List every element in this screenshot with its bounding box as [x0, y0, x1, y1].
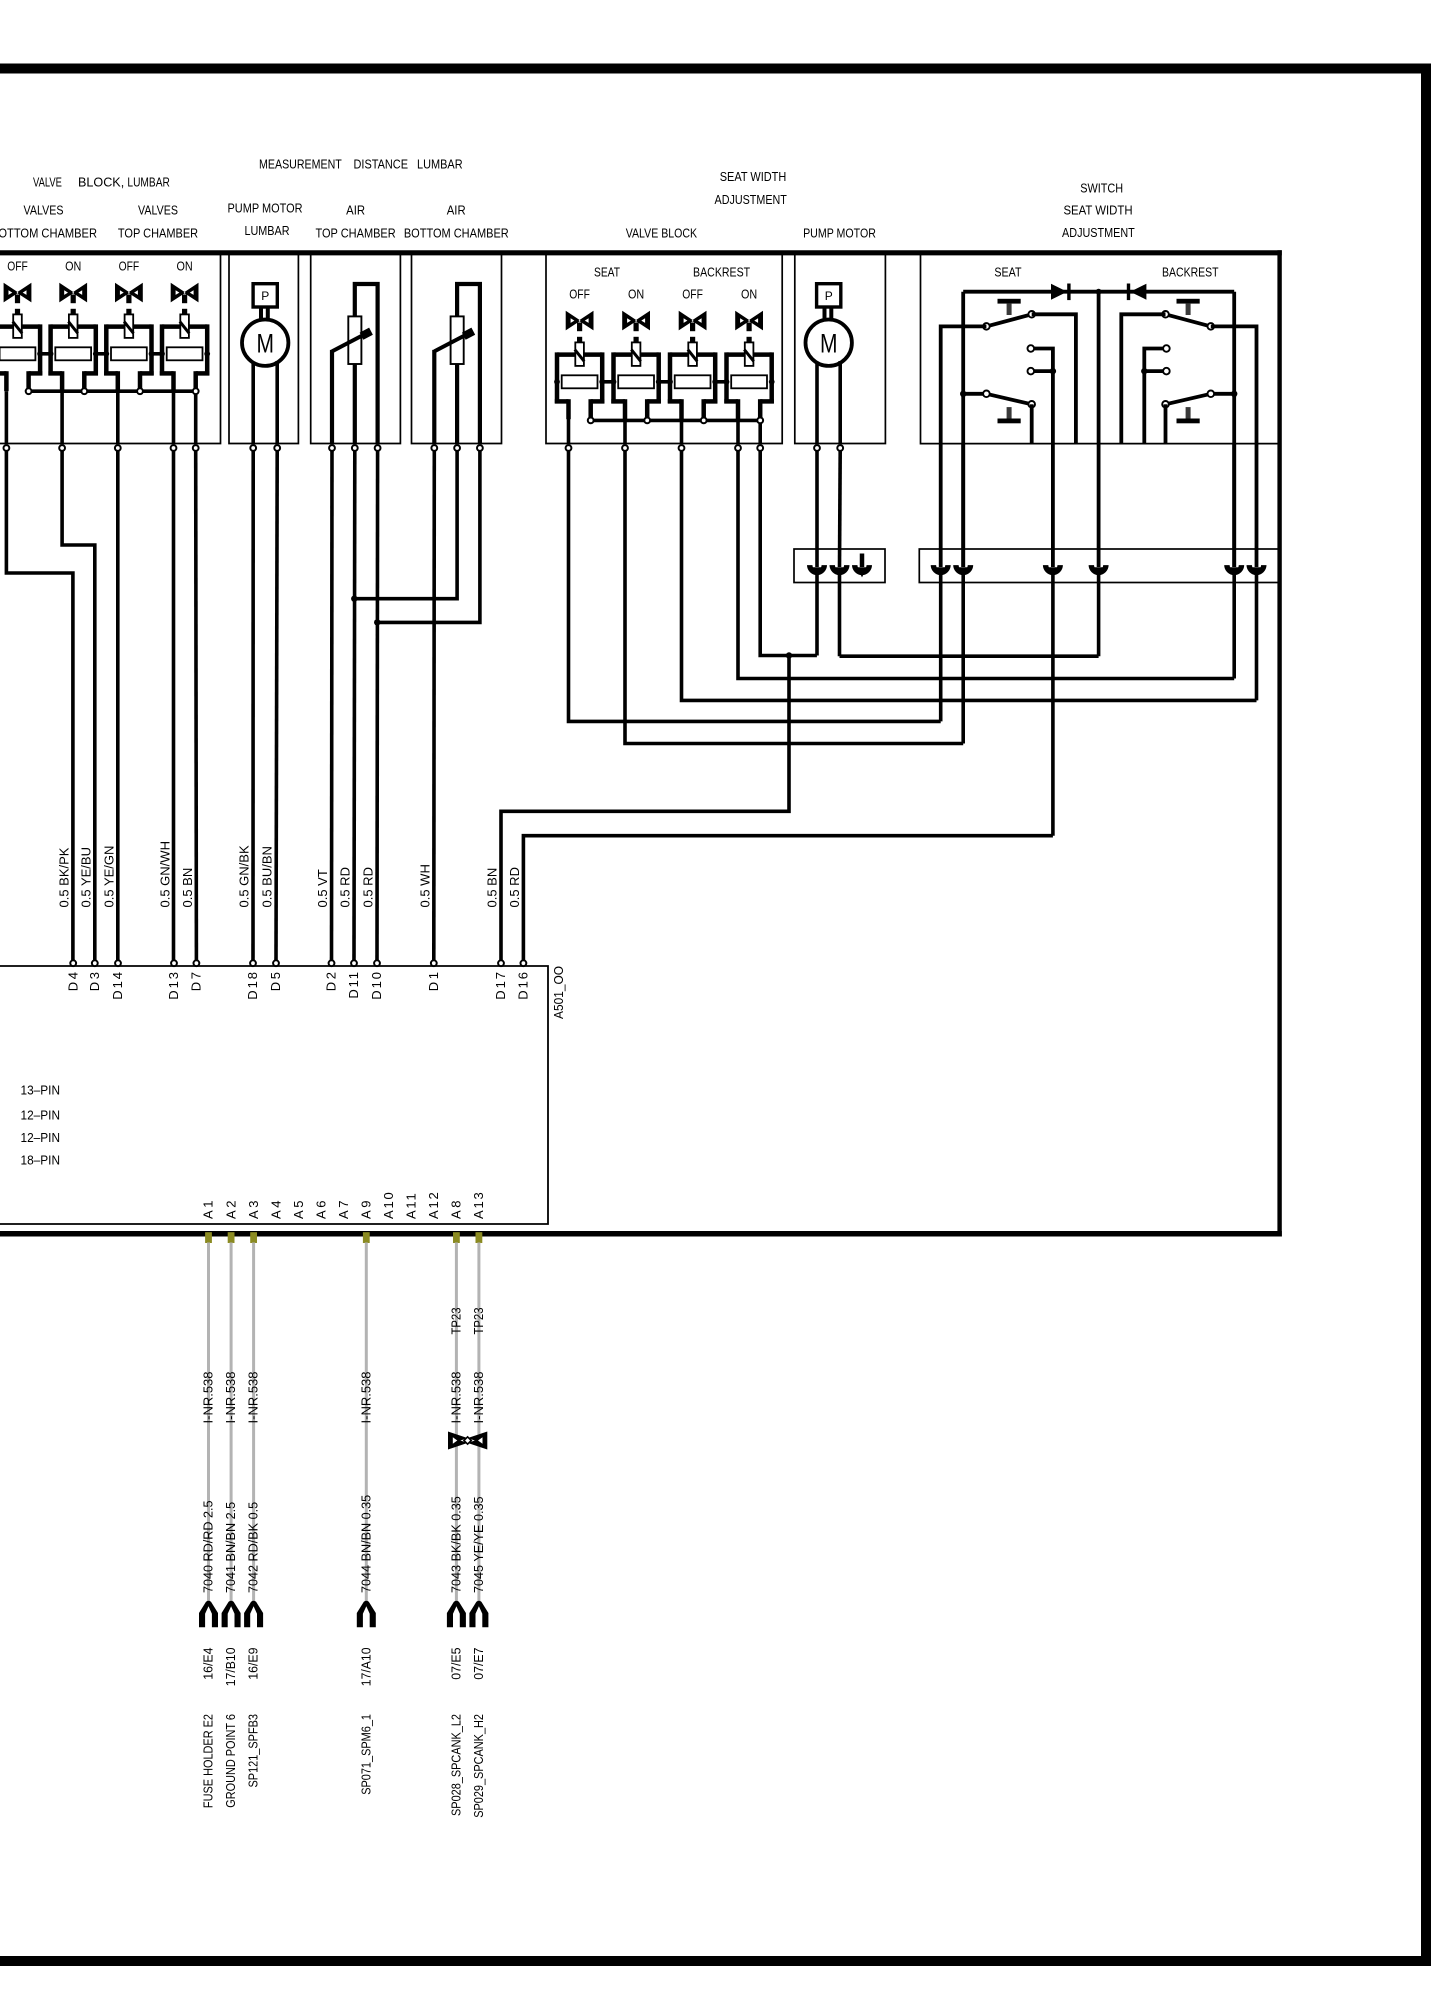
svg-text:LUMBAR: LUMBAR — [244, 223, 289, 238]
switch seat top actuator — [998, 299, 1021, 304]
svg-text:A12: A12 — [426, 1192, 441, 1219]
svg-text:ON: ON — [65, 259, 81, 274]
plug sw1 — [931, 565, 951, 575]
svg-text:12–PIN: 12–PIN — [21, 1108, 61, 1123]
wire seat top blade left — [941, 326, 987, 443]
svg-text:OFF: OFF — [119, 259, 140, 274]
plug sw6 — [1247, 565, 1267, 575]
svg-text:DISTANCE: DISTANCE — [354, 156, 409, 171]
svg-text:SEAT: SEAT — [594, 265, 620, 280]
svg-text:I-NR.538: I-NR.538 — [358, 1371, 373, 1423]
wire D11 (merge from bottom chamber) — [352, 451, 356, 960]
svg-text:0.5 BN: 0.5 BN — [180, 868, 195, 908]
pump motor lumbar P box — [253, 284, 277, 307]
box valve block lumbar — [0, 255, 221, 444]
pump motor lumbar link stubs — [259, 307, 263, 321]
pin D10 — [374, 960, 380, 966]
pin D7 — [194, 960, 200, 966]
switch backrest top blade — [1166, 314, 1211, 326]
wire 7041 — [230, 1243, 233, 1604]
wire D5 — [276, 451, 277, 960]
pump motor seat width link stubs — [823, 307, 827, 321]
svg-text:TOP CHAMBER: TOP CHAMBER — [118, 226, 198, 241]
svg-text:AIR: AIR — [447, 203, 466, 218]
wire w3 to plug sw6 — [682, 451, 1257, 700]
valve V2 seat-width ON — [611, 287, 662, 420]
wire D13 — [172, 451, 176, 960]
svg-text:7041 BN/BN 2.5: 7041 BN/BN 2.5 — [223, 1502, 238, 1593]
svg-text:07/E5: 07/E5 — [448, 1648, 463, 1680]
svg-text:D17: D17 — [493, 972, 508, 1000]
svg-text:OFF: OFF — [7, 259, 28, 274]
svg-text:D10: D10 — [369, 972, 384, 1000]
svg-text:OFF: OFF — [569, 287, 590, 302]
svg-text:M: M — [256, 329, 274, 359]
svg-text:I-NR.538: I-NR.538 — [223, 1371, 238, 1423]
svg-text:7043 BK/BK 0.35: 7043 BK/BK 0.35 — [448, 1496, 463, 1593]
svg-text:I-NR.538: I-NR.538 — [471, 1371, 486, 1423]
svg-text:0.5 BK/PK: 0.5 BK/PK — [56, 847, 71, 907]
svg-text:TOP CHAMBER: TOP CHAMBER — [316, 226, 396, 241]
wire backrest top blade right — [1211, 326, 1257, 443]
svg-text:I-NR.538: I-NR.538 — [448, 1371, 463, 1423]
pin stud 16/E4 — [205, 1232, 212, 1243]
frame bottom bar — [0, 1956, 1431, 1966]
motor M lumbar — [242, 320, 288, 366]
valve V3 seat-width OFF — [667, 287, 718, 420]
svg-text:16/E4: 16/E4 — [201, 1648, 216, 1680]
svg-text:TP23: TP23 — [448, 1308, 463, 1335]
terminal arrow 17/B10 — [222, 1601, 241, 1628]
bus bar 2 — [919, 549, 1279, 583]
svg-text:7045 YE/YE 0.35: 7045 YE/YE 0.35 — [471, 1497, 486, 1594]
svg-text:0.5 BU/BN: 0.5 BU/BN — [260, 846, 275, 907]
motor seat width wires — [815, 362, 819, 444]
switch backrest top actuator — [1177, 299, 1200, 304]
wire D10 (merge from bottom chamber) — [375, 451, 379, 960]
terminals pump lumbar — [250, 445, 256, 451]
box pump motor seat width — [795, 255, 886, 444]
terminal arrow 07/E7 — [469, 1601, 488, 1628]
wire 7045 — [477, 1243, 480, 1604]
pin D11 — [351, 960, 357, 966]
seat-width valve left-leg wires down — [567, 417, 571, 444]
svg-text:VALVES: VALVES — [24, 203, 64, 218]
junction bus 692 — [701, 418, 707, 424]
junction bus 636 — [644, 418, 650, 424]
wire D2 — [330, 451, 334, 960]
svg-text:7044 BN/BN 0.35: 7044 BN/BN 0.35 — [358, 1495, 373, 1593]
pump wires to bus bar — [815, 451, 819, 567]
svg-text:D13: D13 — [166, 972, 181, 1000]
switch seat top blade — [986, 314, 1031, 326]
link wires between lumbar cells — [40, 352, 51, 356]
lumbar valve left-leg wires down — [5, 391, 9, 443]
terminals air top chamber — [329, 445, 335, 451]
wire D17 long — [501, 656, 789, 961]
bus line seat width valve block — [589, 419, 761, 423]
plug pump2 — [830, 565, 850, 575]
svg-text:ON: ON — [177, 259, 193, 274]
svg-text:0.5 VT: 0.5 VT — [315, 869, 330, 907]
svg-text:A501_OO: A501_OO — [551, 966, 566, 1019]
fork seat — [1031, 349, 1053, 444]
frame top bar — [0, 64, 1431, 74]
twisted pair symbol — [448, 1432, 487, 1450]
switch seat bottom actuator — [998, 419, 1021, 424]
svg-text:AIR: AIR — [346, 203, 365, 218]
wire D3 — [62, 451, 95, 960]
svg-text:VALVE: VALVE — [33, 174, 62, 189]
pin D14 — [115, 960, 121, 966]
wire 7044 — [365, 1243, 368, 1604]
svg-text:SEAT WIDTH: SEAT WIDTH — [1063, 203, 1132, 218]
wire w2 to plug sw2 — [625, 451, 963, 744]
svg-text:TP23: TP23 — [471, 1308, 486, 1335]
pin stud 17/A10 — [363, 1232, 370, 1243]
wire 7040 — [207, 1243, 210, 1604]
svg-text:D18: D18 — [245, 972, 260, 1000]
svg-text:I-NR.538: I-NR.538 — [246, 1371, 261, 1423]
svg-text:P: P — [825, 289, 833, 303]
valve V2 lumbar ON — [48, 259, 99, 392]
svg-text:ADJUSTMENT: ADJUSTMENT — [715, 192, 787, 207]
svg-text:ON: ON — [628, 287, 644, 302]
box air bottom chamber — [412, 255, 502, 444]
svg-text:SP071_SPM6_1: SP071_SPM6_1 — [358, 1714, 373, 1795]
terminals air bottom chamber — [431, 445, 437, 451]
junction 17 bus — [26, 388, 32, 394]
plug pump1 — [807, 565, 827, 575]
wire backrest top blade left — [1121, 314, 1165, 443]
pin D3 — [92, 960, 98, 966]
svg-text:PUMP MOTOR: PUMP MOTOR — [228, 201, 303, 216]
switch seat bottom blade — [963, 392, 986, 396]
svg-text:7042 RD/BK 0.5: 7042 RD/BK 0.5 — [246, 1502, 261, 1593]
svg-text:D16: D16 — [516, 972, 531, 1000]
svg-text:13–PIN: 13–PIN — [21, 1083, 61, 1098]
valve V3 lumbar OFF — [103, 259, 154, 392]
pin D5 — [273, 960, 279, 966]
frame right bar — [1421, 64, 1431, 1967]
svg-text:17/B10: 17/B10 — [223, 1648, 238, 1687]
svg-text:LUMBAR: LUMBAR — [417, 156, 463, 171]
wire switch right vertical — [1232, 292, 1236, 567]
plug sw4 — [1089, 565, 1109, 575]
pin D17 — [498, 960, 504, 966]
terminal arrow 17/A10 — [357, 1601, 376, 1628]
svg-text:7040 RD/RD 2.5: 7040 RD/RD 2.5 — [201, 1501, 216, 1594]
pin stud 07/E7 — [476, 1232, 483, 1243]
pin stud 07/E5 — [453, 1232, 460, 1243]
svg-text:VALVES: VALVES — [138, 203, 178, 218]
wire 7042 — [252, 1243, 255, 1604]
wire diode node down to bus — [1097, 292, 1101, 567]
wire w1 to plug sw1 — [569, 451, 941, 721]
junction bus 579 — [588, 418, 594, 424]
wire D1 — [432, 451, 436, 960]
pin stud 17/B10 — [228, 1232, 235, 1243]
svg-text:0.5 YE/GN: 0.5 YE/GN — [102, 846, 117, 908]
switch backrest bottom blade — [1211, 392, 1234, 396]
pin D18 — [250, 960, 256, 966]
junction 73 bus — [81, 388, 87, 394]
terminals lumbar valve block — [4, 445, 10, 451]
motor lumbar wires — [251, 362, 255, 444]
svg-text:BOTTOM CHAMBER: BOTTOM CHAMBER — [404, 226, 509, 241]
svg-text:GROUND POINT 6: GROUND POINT 6 — [223, 1714, 238, 1808]
pin D16 — [521, 960, 527, 966]
sensor air bottom chamber — [434, 284, 480, 444]
svg-text:I-NR.538: I-NR.538 — [201, 1371, 216, 1423]
svg-text:16/E9: 16/E9 — [246, 1648, 261, 1680]
valve V1 lumbar OFF — [0, 259, 43, 392]
terminal arrow 16/E4 — [199, 1601, 218, 1628]
wire w5 bus-common seat valve to plug pump1 — [760, 451, 817, 656]
svg-text:12–PIN: 12–PIN — [21, 1130, 61, 1145]
svg-text:A13: A13 — [471, 1192, 486, 1219]
junction 128 bus — [137, 388, 143, 394]
wire D14 — [116, 451, 120, 960]
svg-text:ON: ON — [741, 287, 757, 302]
valve V4 lumbar ON — [159, 259, 210, 392]
pin D1 — [431, 960, 437, 966]
svg-text:A11: A11 — [404, 1193, 419, 1219]
node diode junction — [1096, 289, 1102, 295]
box air top chamber — [311, 255, 401, 444]
svg-text:0.5 GN/BK: 0.5 GN/BK — [237, 845, 252, 907]
pin stud 16/E9 — [250, 1232, 257, 1243]
outer box right edge — [1277, 250, 1281, 1236]
junction bus 749 — [757, 418, 763, 424]
terminal arrow 07/E5 — [447, 1601, 466, 1628]
wire switch left vertical — [961, 292, 965, 567]
svg-text:0.5 YE/BU: 0.5 YE/BU — [78, 847, 93, 907]
wire D4 — [6, 451, 73, 960]
svg-text:SP121_SPFB3: SP121_SPFB3 — [246, 1714, 261, 1788]
diode D-left — [1051, 284, 1067, 300]
svg-text:BLOCK,: BLOCK, — [78, 174, 124, 189]
svg-text:A10: A10 — [381, 1192, 396, 1219]
svg-text:MEASUREMENT: MEASUREMENT — [259, 156, 342, 171]
pin D2 — [329, 960, 335, 966]
wire air bottom right to D10 — [377, 451, 480, 622]
svg-text:LUMBAR: LUMBAR — [127, 174, 169, 189]
pin D4 — [70, 960, 76, 966]
svg-text:0.5 BN: 0.5 BN — [485, 868, 500, 908]
svg-text:0.5 GN/WH: 0.5 GN/WH — [158, 841, 173, 907]
wire D7 — [194, 451, 198, 960]
wire seat top blade right — [1032, 314, 1076, 443]
terminal arrow 16/E9 — [244, 1601, 263, 1628]
junction 184 bus — [193, 388, 199, 394]
wire air bottom pot to D11 — [354, 451, 457, 599]
svg-text:BACKREST: BACKREST — [693, 265, 750, 280]
svg-text:07/E7: 07/E7 — [471, 1648, 486, 1680]
switch top wire — [963, 290, 1234, 294]
pump motor seat width P box — [817, 284, 841, 307]
svg-text:BACKREST: BACKREST — [1162, 265, 1219, 280]
svg-text:17/A10: 17/A10 — [358, 1648, 373, 1687]
svg-text:SEAT: SEAT — [994, 265, 1021, 280]
svg-text:0.5 RD: 0.5 RD — [361, 867, 376, 907]
svg-text:PUMP MOTOR: PUMP MOTOR — [803, 225, 876, 240]
svg-text:18–PIN: 18–PIN — [21, 1153, 61, 1168]
svg-text:D11: D11 — [346, 972, 361, 999]
svg-text:VALVE BLOCK: VALVE BLOCK — [626, 225, 698, 240]
diode D-right — [1130, 284, 1146, 300]
plug sw2 — [953, 565, 973, 575]
wire D16 long — [1051, 574, 1055, 836]
valve V1 seat-width OFF — [554, 287, 605, 420]
sensor air top chamber — [332, 284, 378, 444]
connector A501 box — [0, 966, 548, 1224]
box switch seat width adjustment — [921, 255, 1280, 444]
plug sw3 — [1043, 565, 1063, 575]
svg-text:FUSE HOLDER E2: FUSE HOLDER E2 — [201, 1714, 216, 1808]
node w5/D17 — [786, 652, 792, 658]
switch backrest bottom actuator — [1177, 419, 1200, 424]
svg-text:M: M — [820, 329, 838, 359]
svg-text:ADJUSTMENT: ADJUSTMENT — [1062, 225, 1135, 240]
pin D13 — [171, 960, 177, 966]
svg-text:SEAT WIDTH: SEAT WIDTH — [720, 169, 787, 184]
wire 7043 — [455, 1243, 458, 1604]
svg-text:SP029_SPCANK_H2: SP029_SPCANK_H2 — [471, 1714, 486, 1818]
valve V4 seat-width ON — [724, 287, 775, 420]
box pump motor lumbar — [229, 255, 298, 444]
plug sw5 — [1224, 565, 1244, 575]
outer box bottom edge — [0, 1231, 1282, 1237]
svg-text:OFF: OFF — [682, 287, 703, 302]
svg-text:D14: D14 — [110, 972, 125, 1000]
wire plug pump2 to plug sw4 — [838, 574, 842, 656]
terminals pump seat width — [814, 445, 820, 451]
link wires between seat-width cells — [602, 380, 613, 384]
terminals seat width valve block — [566, 445, 572, 451]
plug spare — [860, 554, 865, 568]
wire D18 — [251, 451, 255, 960]
svg-text:BOTTOM CHAMBER: BOTTOM CHAMBER — [0, 226, 97, 241]
svg-text:0.5 RD: 0.5 RD — [507, 867, 522, 907]
svg-text:0.5 WH: 0.5 WH — [417, 864, 432, 907]
svg-text:0.5 RD: 0.5 RD — [338, 867, 353, 907]
switch exit wires to bus bar — [939, 444, 943, 567]
svg-text:SWITCH: SWITCH — [1080, 181, 1123, 196]
fork backrest — [1144, 349, 1166, 444]
box valve block seat width — [546, 255, 782, 444]
bus line lumbar valve block — [27, 389, 196, 393]
outer box top bus line — [0, 250, 1282, 255]
svg-text:SP028_SPCANK_L2: SP028_SPCANK_L2 — [448, 1714, 463, 1816]
bus bar 1 — [794, 549, 885, 583]
svg-text:P: P — [261, 289, 269, 303]
wire w4 to plug sw5 — [738, 451, 1234, 679]
motor M seat width — [806, 320, 852, 366]
